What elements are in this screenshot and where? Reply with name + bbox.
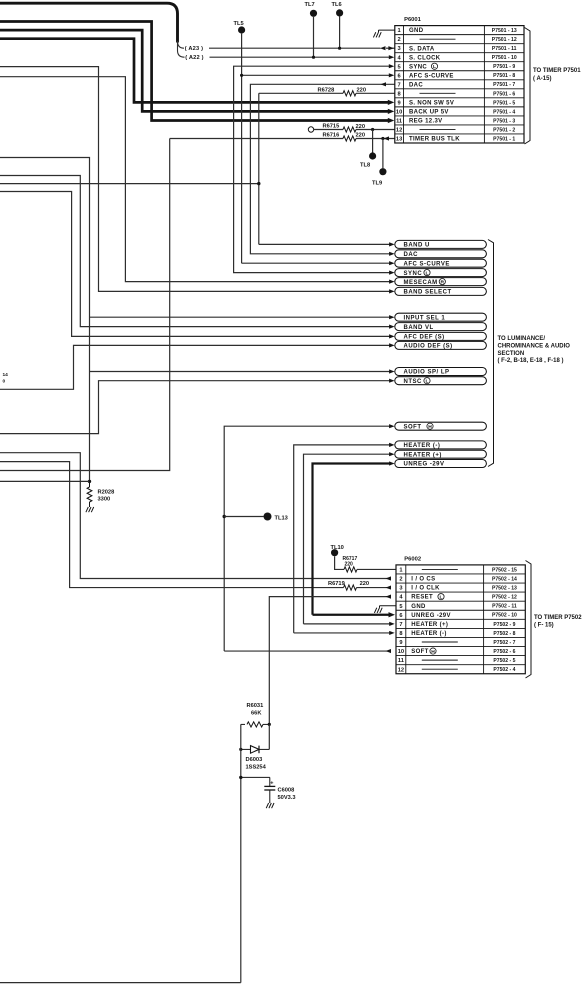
node AUDIO SP/LP pill bbox=[395, 368, 487, 376]
svg-text:220: 220 bbox=[356, 132, 366, 138]
svg-text:SYNC: SYNC bbox=[404, 271, 423, 277]
svg-text:AFC S-CURVE: AFC S-CURVE bbox=[409, 73, 454, 79]
svg-text:13: 13 bbox=[396, 137, 402, 143]
wire UNREG -29V net thick bbox=[313, 464, 391, 615]
svg-text:P7502 - 12: P7502 - 12 bbox=[492, 595, 517, 601]
node AFC DEF (S) pill bbox=[395, 332, 487, 340]
svg-text:7: 7 bbox=[399, 622, 402, 628]
diode D6003 1SS254 bbox=[268, 724, 270, 749]
wire AFC DEF net bbox=[0, 192, 390, 337]
svg-text:P7502 - 11: P7502 - 11 bbox=[492, 604, 517, 610]
svg-text:L: L bbox=[426, 270, 429, 276]
svg-text:P7502 - 6: P7502 - 6 bbox=[493, 649, 515, 655]
svg-text:SOFT: SOFT bbox=[411, 649, 428, 655]
svg-text:1SS254: 1SS254 bbox=[246, 765, 267, 771]
ground at P6001 pin1 bbox=[379, 29, 395, 31]
svg-text:R6716: R6716 bbox=[323, 133, 340, 139]
wire SOFT net bbox=[224, 426, 390, 651]
svg-text:66K: 66K bbox=[251, 711, 262, 717]
svg-text:BAND U: BAND U bbox=[404, 243, 430, 249]
svg-text:3300: 3300 bbox=[98, 497, 111, 503]
test point TL13 bbox=[223, 515, 226, 518]
svg-text:1: 1 bbox=[398, 28, 401, 34]
node NTSC pill bbox=[395, 377, 487, 385]
svg-text:12: 12 bbox=[398, 667, 404, 673]
thick bus wire W4 to pin9 bbox=[0, 39, 389, 103]
wire A23 to P6001 pin3 bbox=[209, 47, 381, 49]
svg-text:HEATER (-): HEATER (-) bbox=[411, 631, 446, 637]
svg-text:1: 1 bbox=[399, 567, 402, 573]
svg-text:R2028: R2028 bbox=[98, 490, 115, 496]
svg-text:P7502 - 8: P7502 - 8 bbox=[493, 631, 515, 637]
svg-text:I / O CS: I / O CS bbox=[411, 577, 435, 583]
svg-text:AFC S-CURVE: AFC S-CURVE bbox=[404, 261, 450, 267]
svg-text:P7501 - 12: P7501 - 12 bbox=[492, 37, 517, 43]
svg-text:DAC: DAC bbox=[409, 82, 423, 88]
svg-text:8: 8 bbox=[398, 91, 401, 97]
svg-text:9: 9 bbox=[399, 640, 402, 646]
svg-text:P7501 - 13: P7501 - 13 bbox=[492, 28, 517, 34]
svg-text:P7502 - 4: P7502 - 4 bbox=[493, 667, 515, 673]
wire INPUT SEL 1 / R2028 net bbox=[0, 158, 90, 482]
svg-text:L: L bbox=[426, 378, 429, 384]
svg-text:AFC DEF (S): AFC DEF (S) bbox=[404, 335, 445, 341]
svg-text:5: 5 bbox=[398, 64, 401, 70]
wire BAND U net bbox=[258, 93, 260, 244]
svg-text:+: + bbox=[270, 781, 273, 787]
svg-text:UNREG -29V: UNREG -29V bbox=[411, 613, 451, 619]
svg-text:MESECAM: MESECAM bbox=[404, 280, 438, 286]
wire BAND VL net bbox=[0, 176, 390, 327]
node SOFT out pill bbox=[395, 422, 487, 430]
svg-text:P6001: P6001 bbox=[404, 17, 422, 23]
wire AUDIO DEF net bbox=[0, 345, 390, 389]
svg-text:GND: GND bbox=[411, 604, 426, 610]
svg-text:( F-2, B-18, E-18 , F-18 ): ( F-2, B-18, E-18 , F-18 ) bbox=[498, 358, 564, 364]
svg-text:H: H bbox=[431, 649, 435, 655]
svg-text:P7502 - 10: P7502 - 10 bbox=[492, 613, 517, 619]
svg-text:P7502 - 9: P7502 - 9 bbox=[493, 622, 515, 628]
svg-text:TO LUMINANCE/: TO LUMINANCE/ bbox=[498, 336, 546, 342]
svg-text:RESET: RESET bbox=[411, 595, 433, 601]
svg-text:AUDIO DEF (S): AUDIO DEF (S) bbox=[404, 344, 453, 350]
thick bus wire W2 to pin11 bbox=[0, 22, 389, 121]
wire left rail of diode network down to bottom rail bbox=[240, 724, 242, 982]
svg-text:UNREG -29V: UNREG -29V bbox=[404, 462, 445, 468]
resistor R6715 220 bbox=[308, 127, 313, 132]
svg-text:( A23 ): ( A23 ) bbox=[185, 46, 204, 52]
svg-text:3: 3 bbox=[398, 46, 401, 52]
wire HEATER(+) net bbox=[304, 454, 391, 624]
node AFC S-CURVE out pill bbox=[395, 259, 487, 267]
svg-text:BAND SELECT: BAND SELECT bbox=[404, 290, 452, 296]
node BAND SELECT pill bbox=[395, 287, 487, 295]
svg-text:P7501 - 1: P7501 - 1 bbox=[493, 136, 515, 142]
wire MESECAM net bbox=[0, 77, 390, 282]
svg-text:P7501 - 4: P7501 - 4 bbox=[493, 109, 515, 115]
svg-text:11: 11 bbox=[398, 658, 404, 664]
wire AFC S-CURVE TL5 to pin6 and pill bbox=[241, 34, 243, 264]
svg-text:DAC: DAC bbox=[404, 252, 419, 258]
svg-text:NTSC: NTSC bbox=[404, 379, 423, 385]
capacitor C6008 50V3.3 bbox=[239, 776, 242, 779]
svg-text:P7501 - 2: P7501 - 2 bbox=[493, 127, 515, 133]
wire W1 fork to A23 bbox=[178, 41, 185, 48]
svg-text:( A-15): ( A-15) bbox=[533, 76, 551, 82]
node MESECAM pill bbox=[395, 278, 487, 286]
node HEATER (-) out pill bbox=[395, 441, 487, 449]
svg-text:TL6: TL6 bbox=[332, 2, 342, 8]
wire I/O CS net bbox=[0, 453, 391, 579]
node HEATER (+) out pill bbox=[395, 450, 487, 458]
svg-text:14: 14 bbox=[3, 372, 9, 378]
svg-text:C6008: C6008 bbox=[278, 788, 295, 794]
node BAND VL pill bbox=[395, 323, 487, 331]
svg-text:HEATER (+): HEATER (+) bbox=[404, 452, 442, 458]
svg-text:P7502 - 5: P7502 - 5 bbox=[493, 658, 515, 664]
svg-text:TO TIMER P7501: TO TIMER P7501 bbox=[533, 68, 581, 74]
wire SYNC pin5 to SYNC pill bbox=[234, 66, 390, 272]
svg-text:L: L bbox=[433, 64, 436, 70]
svg-text:TL5: TL5 bbox=[234, 21, 244, 27]
wire HEATER(-) net bbox=[294, 445, 390, 633]
svg-text:S. NON SW 5V: S. NON SW 5V bbox=[409, 100, 454, 106]
svg-text:P7501 - 11: P7501 - 11 bbox=[492, 46, 517, 52]
wire BAND SELECT net bbox=[0, 67, 390, 292]
svg-text:P7501 - 8: P7501 - 8 bbox=[493, 73, 515, 79]
svg-text:HEATER (+): HEATER (+) bbox=[411, 622, 448, 628]
svg-text:SYNC: SYNC bbox=[409, 64, 427, 70]
wire TL7 to pin4 bbox=[313, 17, 315, 57]
thick bus wire W3 to pin10 bbox=[0, 30, 389, 111]
bracket TO LUMINANCE CHROMINANCE AUDIO SECTION bbox=[488, 240, 494, 467]
svg-text:11: 11 bbox=[396, 118, 402, 124]
connector P6001 table bbox=[395, 26, 524, 143]
node INPUT SEL 1 pill bbox=[395, 313, 487, 321]
svg-text:SOFT: SOFT bbox=[404, 424, 422, 430]
ground at P6002 pin5 bbox=[380, 605, 397, 607]
svg-text:10: 10 bbox=[396, 109, 402, 115]
svg-text:8: 8 bbox=[399, 631, 402, 637]
node DAC out pill bbox=[395, 250, 487, 258]
svg-text:TL13: TL13 bbox=[275, 515, 288, 521]
svg-text:10: 10 bbox=[398, 649, 404, 655]
wire W1 fork to A22 bbox=[178, 41, 185, 57]
bracket TO TIMER P7501 bbox=[525, 28, 531, 145]
svg-text:TL7: TL7 bbox=[305, 2, 315, 8]
svg-text:P7501 - 9: P7501 - 9 bbox=[493, 64, 515, 70]
wire NTSC net bbox=[0, 381, 390, 434]
wire TL6 to pin3 bbox=[339, 17, 341, 49]
connector P6002 table bbox=[396, 565, 525, 674]
svg-text:220: 220 bbox=[345, 562, 354, 568]
svg-text:P7502 - 13: P7502 - 13 bbox=[492, 586, 517, 592]
svg-text:9: 9 bbox=[398, 100, 401, 106]
svg-text:R: R bbox=[441, 279, 445, 285]
svg-text:BACK UP 5V: BACK UP 5V bbox=[409, 109, 449, 115]
svg-text:REG 12.3V: REG 12.3V bbox=[409, 119, 443, 125]
svg-text:P7501 - 7: P7501 - 7 bbox=[493, 82, 515, 88]
svg-text:TO TIMER P7502: TO TIMER P7502 bbox=[534, 615, 582, 621]
svg-text:220: 220 bbox=[357, 87, 367, 93]
svg-text:P7502 - 15: P7502 - 15 bbox=[492, 567, 517, 573]
bracket TO TIMER P7502 bbox=[526, 561, 532, 679]
svg-text:6: 6 bbox=[399, 613, 402, 619]
node SYNC out pill bbox=[395, 269, 487, 277]
svg-text:P7501 - 6: P7501 - 6 bbox=[493, 91, 515, 97]
svg-text:HEATER (-): HEATER (-) bbox=[404, 443, 441, 449]
svg-text:R6031: R6031 bbox=[247, 703, 264, 709]
test point TL8 bbox=[371, 128, 374, 131]
svg-text:R6719: R6719 bbox=[328, 581, 345, 587]
bottom rail wire to left edge bbox=[0, 982, 241, 984]
svg-text:12: 12 bbox=[396, 127, 402, 133]
svg-text:BAND VL: BAND VL bbox=[404, 325, 434, 331]
wire RESET pin4 to diode network bbox=[269, 597, 390, 725]
svg-text:SECTION: SECTION bbox=[498, 351, 525, 357]
svg-text:2: 2 bbox=[399, 577, 402, 583]
wire TIMER BUS TLK to left edge bbox=[0, 139, 170, 471]
resistor R2028 3300 to ground bbox=[88, 480, 91, 483]
svg-text:6: 6 bbox=[398, 73, 401, 79]
svg-text:2: 2 bbox=[398, 37, 401, 43]
svg-text:3: 3 bbox=[399, 586, 402, 592]
node BAND U pill bbox=[395, 240, 487, 248]
svg-text:5: 5 bbox=[399, 604, 402, 610]
wire left edge to BAND U net junction bbox=[0, 183, 259, 185]
svg-text:GND: GND bbox=[409, 28, 424, 34]
svg-text:P7501 - 10: P7501 - 10 bbox=[492, 55, 517, 61]
thick bus wire W1 bbox=[0, 3, 178, 42]
node AUDIO DEF (S) pill bbox=[395, 341, 487, 349]
wire A22 to P6001 pin4 bbox=[210, 56, 390, 58]
svg-text:R6728: R6728 bbox=[318, 87, 335, 93]
svg-text:( F- 15): ( F- 15) bbox=[534, 623, 554, 629]
svg-text:AUDIO SP/ LP: AUDIO SP/ LP bbox=[404, 370, 450, 376]
svg-text:L: L bbox=[440, 594, 443, 600]
wire DAC pin7 to DAC pill bbox=[250, 84, 394, 254]
svg-text:R6715: R6715 bbox=[323, 124, 340, 130]
svg-text:INPUT SEL 1: INPUT SEL 1 bbox=[404, 315, 446, 321]
svg-text:S. CLOCK: S. CLOCK bbox=[409, 55, 441, 61]
test point TL9 bbox=[381, 137, 384, 140]
svg-text:0: 0 bbox=[3, 379, 6, 385]
svg-text:P7502 - 14: P7502 - 14 bbox=[492, 576, 517, 582]
svg-text:D6003: D6003 bbox=[246, 757, 263, 763]
wire I/O CLK net with R6719 bbox=[0, 462, 344, 588]
svg-text:CHROMINANCE & AUDIO: CHROMINANCE & AUDIO bbox=[498, 343, 571, 349]
svg-text:50V3.3: 50V3.3 bbox=[278, 795, 296, 801]
svg-text:( A22 ): ( A22 ) bbox=[185, 55, 204, 61]
svg-text:P6002: P6002 bbox=[404, 556, 421, 562]
svg-text:H: H bbox=[428, 424, 432, 430]
svg-text:P7501 - 3: P7501 - 3 bbox=[493, 118, 515, 124]
svg-text:S. DATA: S. DATA bbox=[409, 46, 435, 52]
svg-text:P7501 - 5: P7501 - 5 bbox=[493, 100, 515, 106]
svg-text:TL8: TL8 bbox=[360, 163, 370, 169]
node UNREG -29V out pill bbox=[395, 460, 487, 468]
wire AUDIO SP/LP tap bbox=[90, 371, 391, 373]
svg-text:TL9: TL9 bbox=[372, 181, 382, 187]
svg-text:I / O CLK: I / O CLK bbox=[411, 586, 440, 592]
svg-text:TIMER BUS TLK: TIMER BUS TLK bbox=[409, 137, 460, 143]
svg-text:220: 220 bbox=[360, 581, 370, 587]
svg-text:7: 7 bbox=[398, 82, 401, 88]
svg-text:P7502 - 7: P7502 - 7 bbox=[493, 640, 515, 646]
